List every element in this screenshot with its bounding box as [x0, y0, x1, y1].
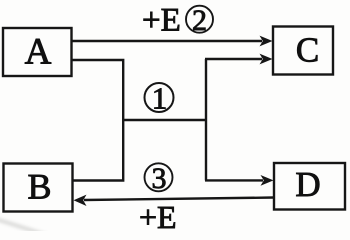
wire to C (lower arrow)	[205, 54, 273, 65]
svg-text:B: B	[27, 167, 51, 207]
wire middle horizontal	[123, 119, 206, 121]
svg-text:D: D	[295, 165, 320, 204]
node circle 1	[145, 81, 174, 116]
scan smudge bottom-left (decorative)	[0, 219, 46, 235]
wire A down to B	[72, 60, 124, 181]
wire A to C	[72, 36, 273, 47]
svg-text:+E: +E	[142, 3, 181, 39]
node circle 2	[186, 4, 213, 37]
svg-text:C: C	[296, 31, 319, 70]
wire D to B	[74, 195, 275, 206]
wire vertical right	[205, 59, 207, 180]
svg-text:+E: +E	[139, 199, 177, 231]
box D	[274, 163, 345, 210]
box C	[273, 27, 333, 75]
svg-text:2: 2	[192, 4, 207, 37]
svg-text:1: 1	[152, 81, 168, 116]
box A	[3, 28, 72, 76]
svg-text:3: 3	[152, 162, 167, 195]
svg-text:A: A	[25, 32, 52, 73]
wire to D	[205, 175, 274, 186]
node circle 3	[145, 162, 173, 195]
box B	[4, 164, 73, 212]
